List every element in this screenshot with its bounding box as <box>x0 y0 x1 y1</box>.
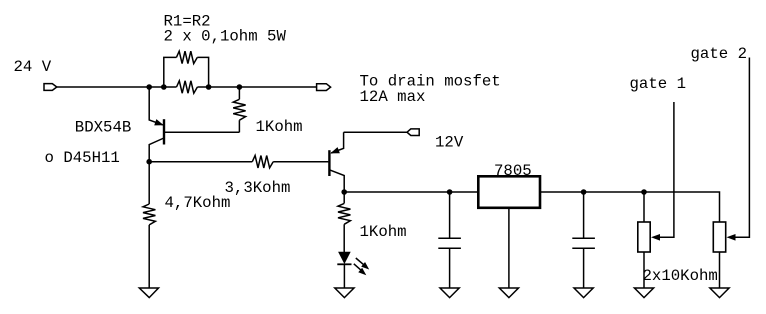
junction dot collector Q2 <box>341 189 347 195</box>
wire top rail left segment <box>57 86 177 88</box>
potentiometer P2 <box>713 222 725 288</box>
output terminal to drain mosfet <box>317 84 331 91</box>
potentiometer P1 <box>638 192 650 288</box>
LED D1 <box>337 252 371 278</box>
svg-text:12V: 12V <box>435 133 464 151</box>
junction dot cap C1 <box>447 189 453 195</box>
wire LED cathode <box>343 264 345 288</box>
wire top rail right segment <box>197 86 316 88</box>
junction dot rail A <box>146 84 152 90</box>
capacitor C2 <box>572 192 595 288</box>
svg-text:7805: 7805 <box>494 162 532 180</box>
wire 7805 ground lead <box>508 208 510 288</box>
ground under P1 <box>634 288 653 298</box>
ground under 4,7Kohm <box>139 288 158 298</box>
resistor 4,7Kohm <box>143 162 155 288</box>
svg-text:3,3Kohm: 3,3Kohm <box>225 179 291 197</box>
input terminal 24V <box>44 84 57 91</box>
svg-text:1Kohm: 1Kohm <box>256 118 303 136</box>
resistor 1Kohm base pull-up <box>233 87 245 132</box>
svg-text:2 x 0,1ohm 5W: 2 x 0,1ohm 5W <box>164 27 287 45</box>
svg-text:BDX54B: BDX54B <box>75 119 131 137</box>
ground under C1 <box>440 288 459 298</box>
junction dot rail D <box>237 84 243 90</box>
wire 5V rail <box>344 192 719 222</box>
resistor R1 (parallel loop) <box>164 51 209 87</box>
wire node rail right <box>273 161 328 163</box>
junction dot rail C <box>206 84 212 90</box>
ground under P2 <box>710 288 729 298</box>
wire gate 2 wiper <box>727 58 750 241</box>
regulator 7805 <box>478 176 540 208</box>
ground under C2 <box>574 288 593 298</box>
svg-text:2x10Kohm: 2x10Kohm <box>643 267 718 285</box>
junction dot cap C2 <box>581 189 587 195</box>
capacitor C1 <box>438 192 461 288</box>
wire base Q1 <box>164 131 239 133</box>
output terminal 12V <box>407 129 419 136</box>
svg-text:1Kohm: 1Kohm <box>360 223 407 241</box>
wire emitter Q2 to 12V <box>344 131 407 133</box>
transistor Q2 D45H11 <box>329 132 344 192</box>
ground under 7805 <box>499 288 518 298</box>
junction dot node base rail <box>146 159 152 165</box>
svg-text:24 V: 24 V <box>14 58 52 76</box>
svg-text:4,7Kohm: 4,7Kohm <box>165 194 231 212</box>
svg-text:gate 2: gate 2 <box>691 45 747 63</box>
junction dot pot P1 <box>641 189 647 195</box>
resistor R2 (on rail) <box>177 81 198 93</box>
junction dot rail B <box>161 84 167 90</box>
svg-text:o D45H11: o D45H11 <box>45 149 120 167</box>
transistor Q1 BDX54B <box>149 87 165 162</box>
resistor 3,3Kohm <box>252 156 273 168</box>
wire node rail left <box>149 161 252 163</box>
resistor 1Kohm LED <box>338 192 350 252</box>
wire gate 1 wiper <box>651 102 674 241</box>
svg-text:12A max: 12A max <box>360 88 426 106</box>
ground under LED <box>335 288 354 298</box>
svg-text:gate 1: gate 1 <box>630 75 686 93</box>
